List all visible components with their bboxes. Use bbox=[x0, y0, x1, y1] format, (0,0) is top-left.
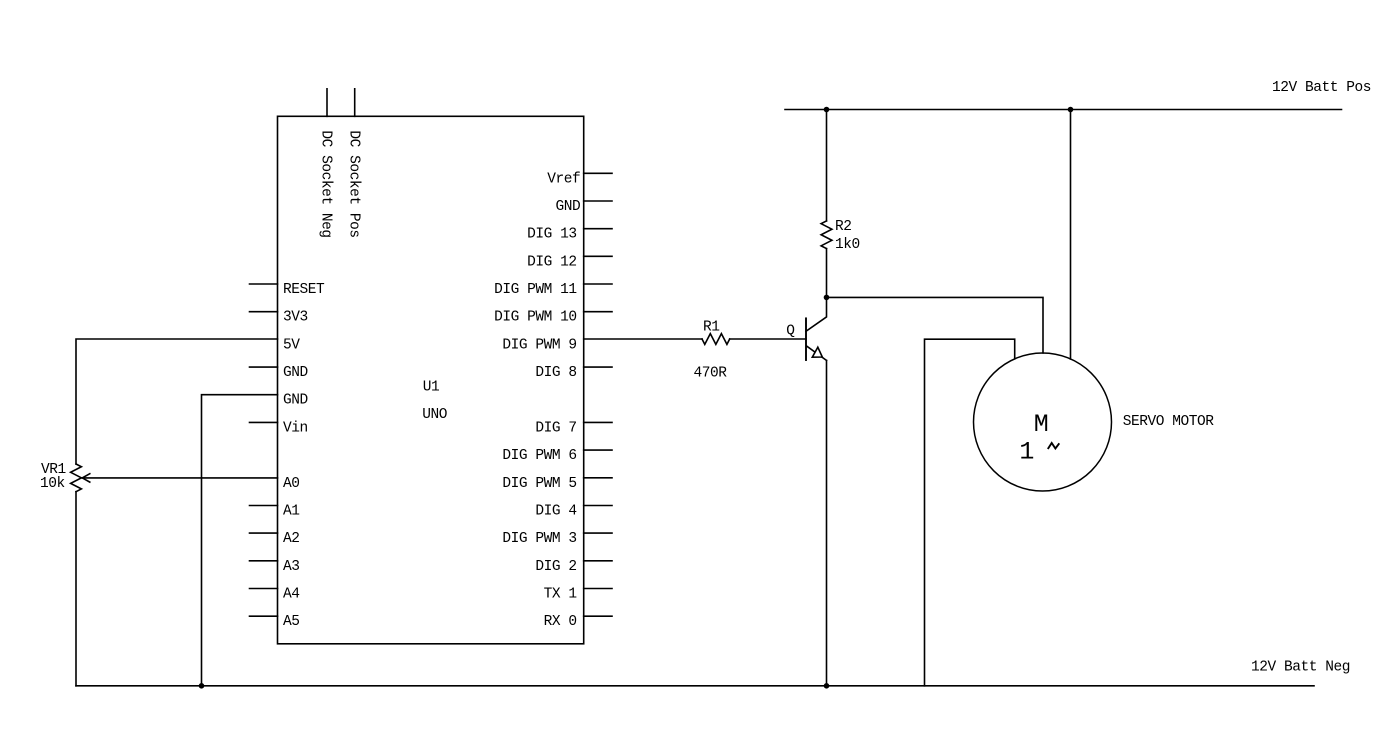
wire VR1 bottom to 12V Batt Neg rail bbox=[75, 492, 77, 686]
svg-text:DIG 4: DIG 4 bbox=[535, 504, 576, 520]
pin DIG 12 stub bbox=[584, 255, 612, 257]
pin DIG 4 stub bbox=[584, 505, 612, 507]
svg-text:A1: A1 bbox=[283, 504, 300, 520]
pin GND stub bbox=[584, 200, 612, 202]
svg-text:DIG 2: DIG 2 bbox=[535, 559, 576, 575]
svg-text:A5: A5 bbox=[283, 614, 300, 630]
pin DIG PWM 11 stub bbox=[584, 283, 612, 285]
svg-text:5V: 5V bbox=[283, 337, 300, 353]
wire 5V to VR1 top bbox=[76, 339, 278, 464]
svg-text:GND: GND bbox=[283, 365, 308, 381]
pin GND stub bbox=[250, 366, 278, 368]
junction emitter/12V Batt Neg bbox=[824, 683, 830, 689]
wire 12V Batt Pos rail bbox=[785, 109, 1342, 111]
svg-text:DIG 8: DIG 8 bbox=[535, 365, 576, 381]
pin DIG PWM 6 stub bbox=[584, 449, 612, 451]
pin A5 stub bbox=[250, 615, 278, 617]
svg-text:UNO: UNO bbox=[422, 407, 447, 423]
svg-text:A4: A4 bbox=[283, 587, 300, 603]
svg-text:DIG PWM 11: DIG PWM 11 bbox=[494, 282, 577, 298]
pin RESET stub bbox=[250, 283, 278, 285]
wire Q emitter to 12V Batt Neg rail bbox=[826, 360, 828, 685]
servo motor M1 circle bbox=[974, 353, 1112, 491]
svg-text:R2: R2 bbox=[835, 219, 852, 235]
svg-text:Q: Q bbox=[786, 324, 795, 340]
svg-text:12V Batt Neg: 12V Batt Neg bbox=[1251, 660, 1350, 676]
svg-text:1k0: 1k0 bbox=[835, 237, 860, 253]
transistor Q base bar bbox=[805, 318, 807, 360]
svg-text:R1: R1 bbox=[703, 320, 720, 336]
svg-text:10k: 10k bbox=[40, 476, 65, 492]
resistor R1 body zigzag bbox=[702, 334, 730, 345]
wire 12V Batt Neg rail to motor bbox=[925, 339, 1015, 686]
pin DIG PWM 10 stub bbox=[584, 311, 612, 313]
svg-text:DC Socket Pos: DC Socket Pos bbox=[345, 130, 361, 237]
pin DIG 13 stub bbox=[584, 228, 612, 230]
svg-text:DIG PWM 9: DIG PWM 9 bbox=[502, 337, 576, 353]
wire 12V Batt Pos rail to motor bbox=[1070, 110, 1072, 359]
svg-text:1: 1 bbox=[1019, 437, 1034, 466]
pin Vin stub bbox=[250, 421, 278, 423]
pin DIG PWM 5 stub bbox=[584, 477, 612, 479]
svg-text:DIG 7: DIG 7 bbox=[535, 420, 576, 436]
svg-text:M: M bbox=[1034, 410, 1049, 439]
svg-text:470R: 470R bbox=[694, 366, 728, 382]
svg-text:A0: A0 bbox=[283, 476, 300, 492]
wire 12V Batt Pos rail to R2 bbox=[826, 110, 828, 221]
svg-text:DIG 12: DIG 12 bbox=[527, 254, 577, 270]
svg-text:Vref: Vref bbox=[547, 171, 580, 187]
svg-text:GND: GND bbox=[556, 199, 581, 215]
svg-text:3V3: 3V3 bbox=[283, 310, 308, 326]
svg-text:Vin: Vin bbox=[283, 420, 308, 436]
svg-text:DC Socket Neg: DC Socket Neg bbox=[318, 130, 334, 237]
pin 3V3 stub bbox=[250, 311, 278, 313]
svg-text:A2: A2 bbox=[283, 531, 300, 547]
pin Vref stub bbox=[584, 172, 612, 174]
transistor Q emitter arrow bbox=[812, 347, 822, 357]
junction GND/12V Batt Neg bbox=[199, 683, 205, 689]
wire R2 to collector node bbox=[826, 249, 828, 298]
svg-text:12V Batt Pos: 12V Batt Pos bbox=[1272, 80, 1371, 96]
motor tilde bbox=[1048, 443, 1060, 449]
junction motor/12V Batt Pos bbox=[1068, 107, 1074, 113]
pin A4 stub bbox=[250, 588, 278, 590]
wire DIG PWM 9 to R1 bbox=[584, 338, 702, 340]
wire GND pin to 12V Batt Neg rail bbox=[202, 395, 278, 686]
wire collector node to servo motor bbox=[827, 297, 1044, 353]
resistor R2 body zigzag bbox=[821, 221, 832, 249]
svg-text:DIG PWM 6: DIG PWM 6 bbox=[502, 448, 576, 464]
pin A1 stub bbox=[250, 505, 278, 507]
pin A3 stub bbox=[250, 560, 278, 562]
pin DIG 2 stub bbox=[584, 560, 612, 562]
wire VR1 wiper to pin A0 bbox=[82, 477, 277, 479]
svg-text:RX 0: RX 0 bbox=[544, 614, 577, 630]
wire 12V Batt Neg rail bbox=[76, 685, 1314, 687]
svg-text:GND: GND bbox=[283, 393, 308, 409]
junction R2/12V Batt Pos bbox=[824, 107, 830, 113]
svg-text:TX 1: TX 1 bbox=[544, 587, 577, 603]
svg-text:SERVO MOTOR: SERVO MOTOR bbox=[1123, 414, 1215, 430]
svg-text:DIG 13: DIG 13 bbox=[527, 227, 577, 243]
pin DC Socket Neg stub bbox=[326, 89, 328, 117]
pin TX 1 stub bbox=[584, 588, 612, 590]
pin A2 stub bbox=[250, 532, 278, 534]
VR1 wiper arrowhead bbox=[82, 474, 90, 482]
transistor Q emitter bbox=[807, 346, 827, 360]
transistor Q collector bbox=[806, 297, 827, 331]
pin DIG 8 stub bbox=[584, 366, 612, 368]
svg-text:DIG PWM 10: DIG PWM 10 bbox=[494, 310, 577, 326]
svg-text:DIG PWM 5: DIG PWM 5 bbox=[502, 476, 576, 492]
svg-text:U1: U1 bbox=[423, 380, 440, 396]
svg-text:A3: A3 bbox=[283, 559, 300, 575]
junction collector node bbox=[824, 295, 830, 301]
potentiometer VR1 body zigzag bbox=[71, 464, 82, 492]
svg-text:RESET: RESET bbox=[283, 282, 325, 298]
pin DC Socket Pos stub bbox=[354, 89, 356, 117]
wire R1 to Q base bbox=[730, 338, 806, 340]
svg-text:DIG PWM 3: DIG PWM 3 bbox=[502, 531, 576, 547]
pin DIG 7 stub bbox=[584, 421, 612, 423]
pin RX 0 stub bbox=[584, 615, 612, 617]
IC U1 UNO body bbox=[278, 116, 584, 644]
pin DIG PWM 3 stub bbox=[584, 532, 612, 534]
